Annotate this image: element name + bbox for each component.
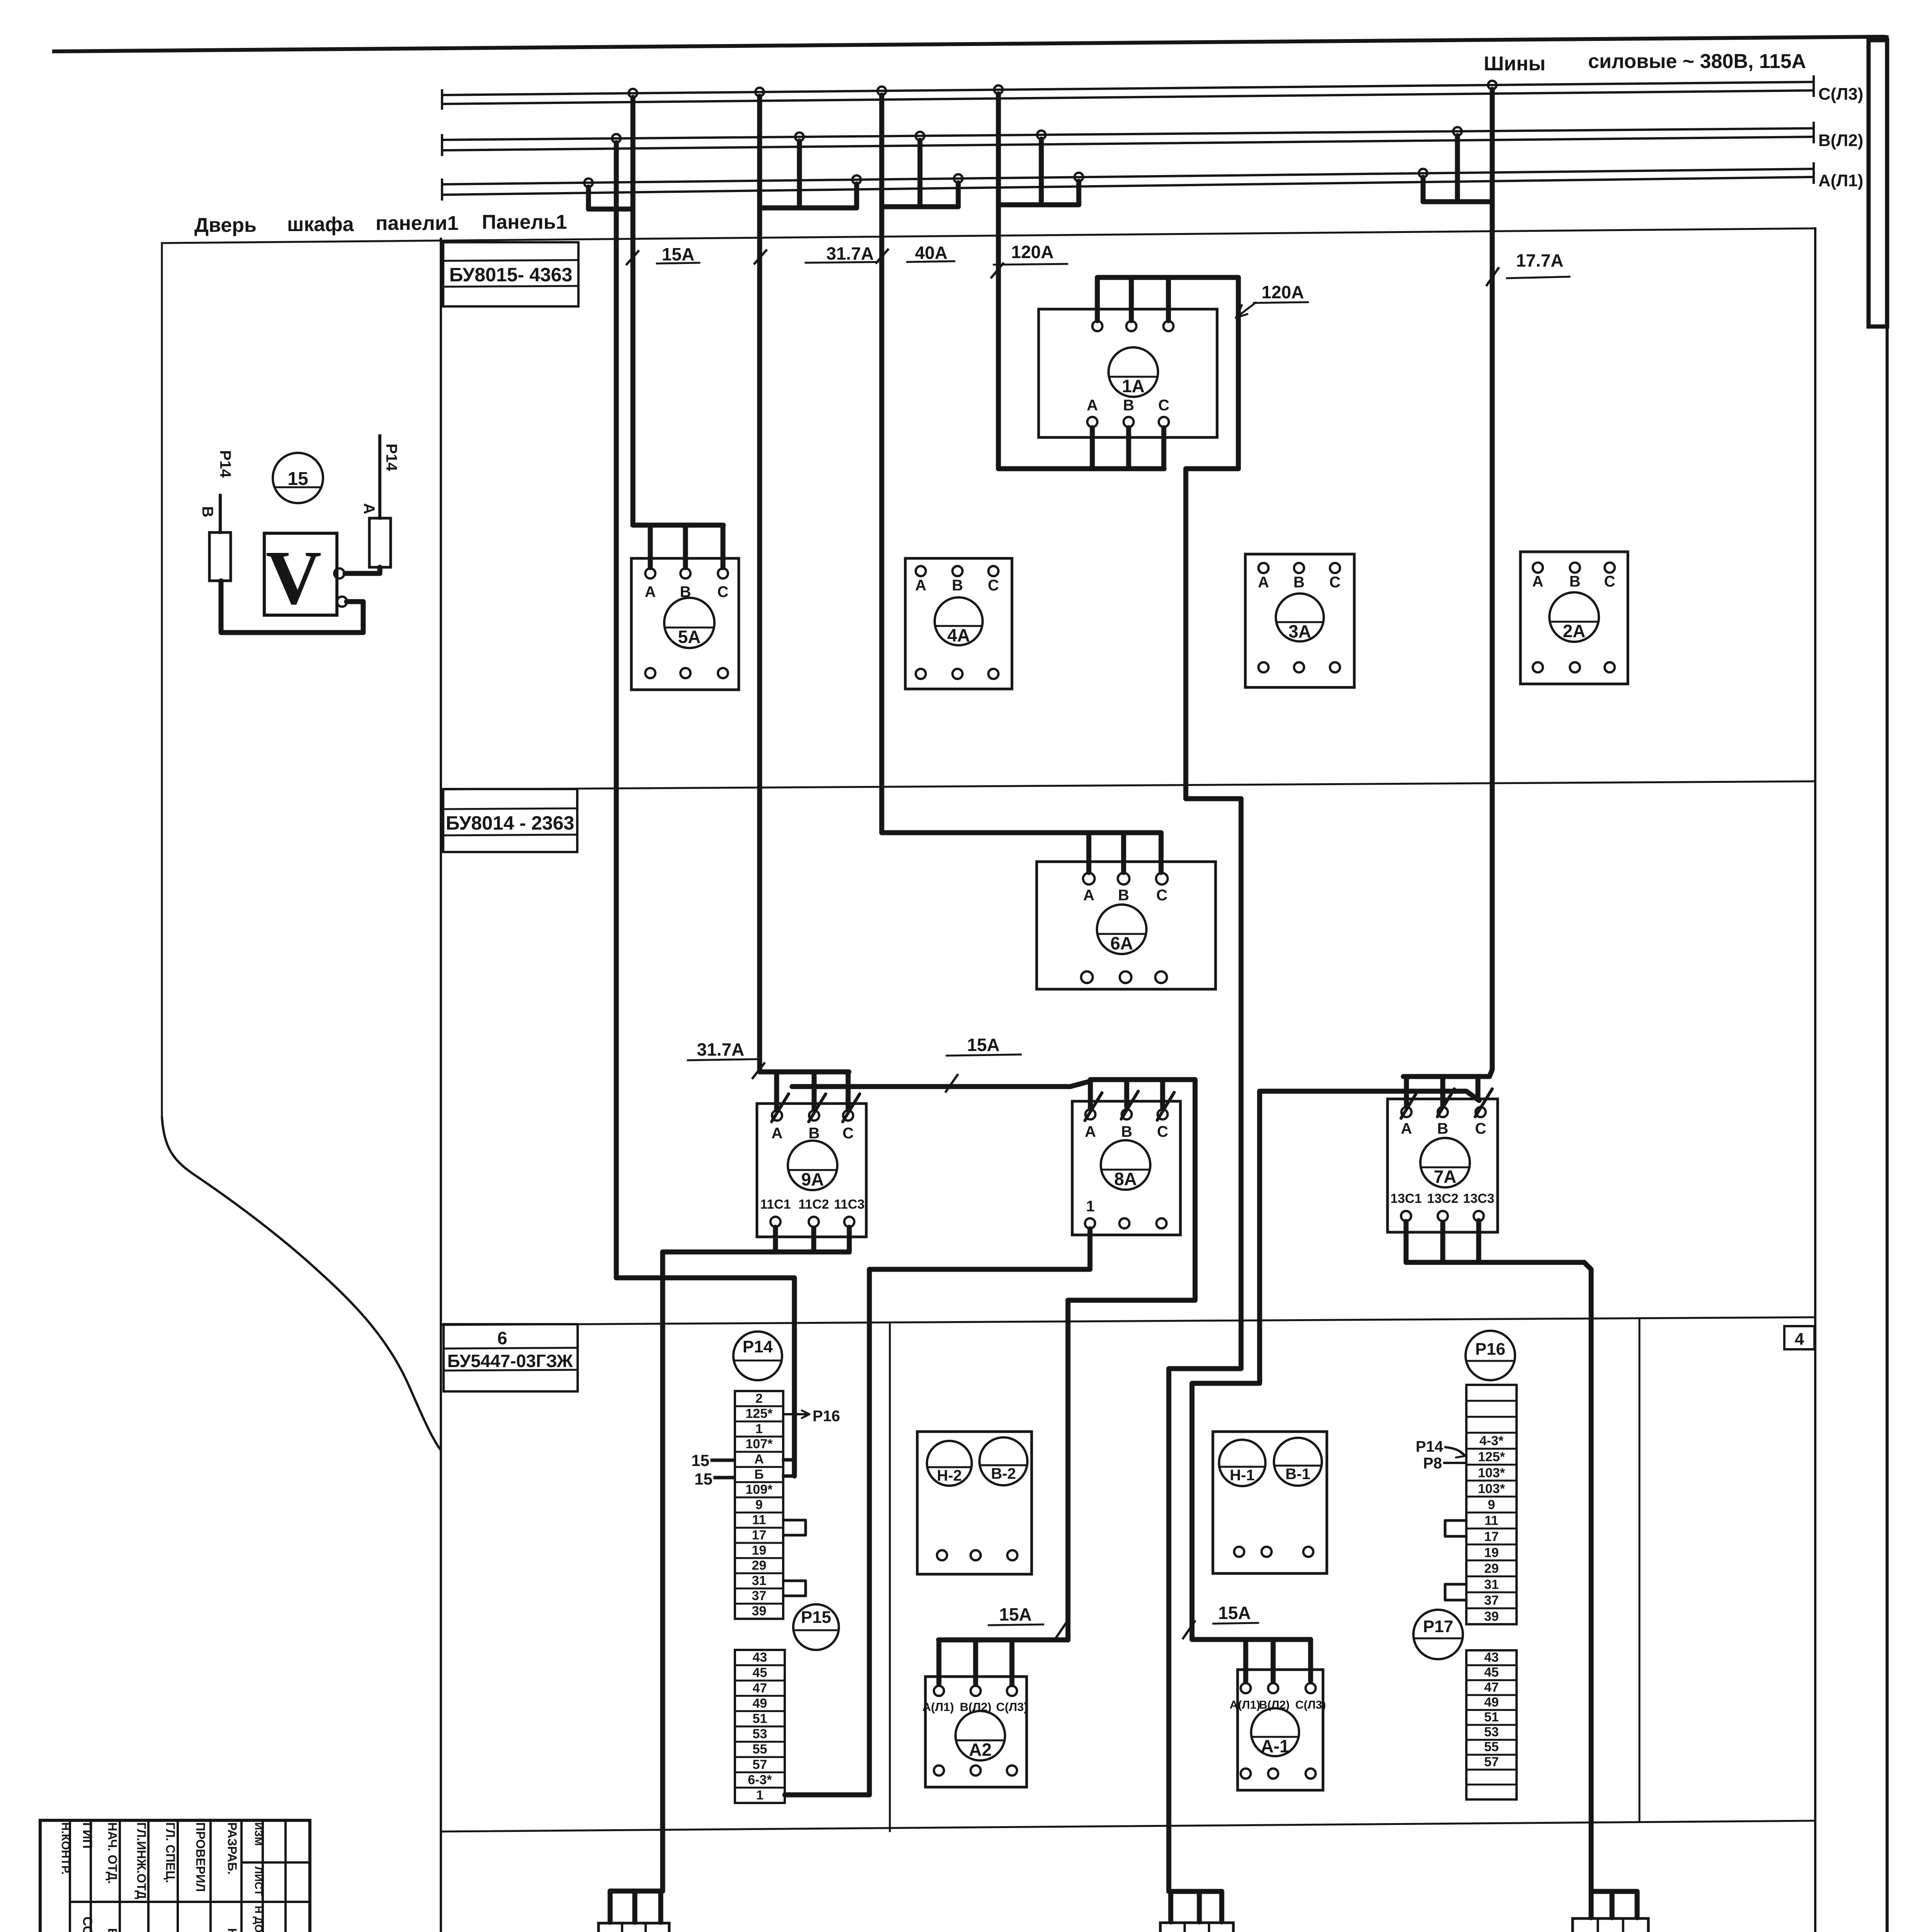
wire feeder 17.7A down to 7A breaker [1403,89,1492,1077]
wire 11S posts bracket [610,1889,663,1894]
circuit breaker 7A [1388,1099,1498,1232]
wire feeder 40A down to 6A breaker [882,95,1161,833]
svg-text:Панель1: Панель1 [482,211,567,233]
resistor fuse A [369,436,391,567]
svg-text:С: С [1158,397,1170,414]
svg-text:11: 11 [752,1513,766,1527]
bus A right end tick [1813,163,1815,183]
wire stub to terminal row A [784,1458,794,1462]
svg-text:НАЧ. ОТД.: НАЧ. ОТД. [105,1822,119,1884]
sheet right border [1886,37,1889,1932]
wire feeder 120A down to 1A breaker loop [998,94,1164,469]
pin labels A(L1) B(L2) C(L3) of A2 [922,1700,1028,1714]
svg-text:А: А [1087,397,1098,414]
svg-text:15А: 15А [1218,1603,1251,1623]
label 120A at 1A breaker [1236,282,1308,318]
svg-text:А: А [1083,887,1095,904]
svg-text:В-1: В-1 [1286,1466,1310,1483]
svg-text:Н ДОКУМ.: Н ДОКУМ. [253,1906,265,1932]
svg-text:ГЛ.ИНЖ.ОТД: ГЛ.ИНЖ.ОТД [134,1822,148,1899]
unit label table BU8015-4363 [443,242,578,306]
svg-text:А(Л1): А(Л1) [1818,171,1863,190]
svg-text:53: 53 [753,1727,767,1742]
svg-text:29: 29 [752,1558,767,1573]
svg-text:11С3: 11С3 [834,1197,864,1212]
door and panel top border [162,228,1815,243]
tap circle on bus B group5 [1453,127,1462,136]
svg-text:29: 29 [1484,1561,1499,1576]
bus C(L3) lower line [442,90,1814,104]
terminal strip right upper [1466,1385,1517,1624]
svg-text:V: V [266,535,321,621]
svg-text:15: 15 [691,1451,709,1469]
svg-text:В: В [1123,397,1134,414]
svg-text:109*: 109* [746,1482,773,1497]
bus B left end tick [441,135,443,155]
tap circle on bus B group3 [916,132,924,140]
title block signatures column texts [59,1822,265,1932]
svg-text:31: 31 [752,1573,767,1588]
wire 7A drop C with pole slash [1476,1077,1481,1100]
wire 6A drop C [1159,833,1164,872]
svg-text:С: С [1330,574,1341,591]
tap group feeder 15A: tap circle on bus C [629,89,637,97]
wire 1A top stub C [1166,277,1171,321]
svg-text:С: С [1475,1120,1486,1137]
svg-text:51: 51 [1484,1710,1499,1725]
svg-text:103*: 103* [1478,1481,1505,1496]
svg-text:3А: 3А [1289,621,1311,641]
section divider 3 [441,1821,1815,1832]
wire 15A branch from 9A to 8A [792,1081,1090,1087]
relay P16 [1466,1331,1515,1380]
svg-text:120А: 120А [1011,242,1054,262]
svg-text:2: 2 [755,1391,763,1406]
svg-text:В: В [809,1125,820,1142]
wire 9A drop A with pole slash [774,1072,779,1110]
svg-text:С: С [1604,573,1615,590]
wire gathering bracket group5 [1423,199,1492,204]
svg-text:4-3*: 4-3* [1479,1434,1504,1448]
svg-text:С(Л3): С(Л3) [1818,85,1863,104]
svg-text:45: 45 [1484,1665,1499,1680]
svg-text:С(Л3): С(Л3) [996,1700,1028,1714]
wire A-tap drop group2 [854,184,859,208]
wire long 15A line down to section2 jog [616,143,794,1476]
wire 1A bottom stub B [1126,428,1131,469]
svg-text:49: 49 [1484,1695,1499,1709]
svg-text:7А: 7А [1434,1167,1457,1187]
title block table [40,1820,310,1932]
svg-text:А: А [645,583,656,600]
svg-text:9: 9 [1488,1497,1495,1512]
wire 8A outgoing loop to A2 breaker [1068,1080,1195,1640]
svg-text:125*: 125* [746,1406,773,1421]
bus C(L3) upper line [442,82,1814,95]
svg-text:Н-2: Н-2 [937,1467,962,1484]
wire middle posts drops [1171,1889,1222,1894]
svg-text:1: 1 [1086,1198,1095,1215]
svg-text:Р8: Р8 [1423,1455,1442,1472]
lamp 15 indicator circle [273,453,323,503]
svg-text:107*: 107* [746,1437,773,1451]
circuit breaker A2 [925,1677,1027,1787]
svg-text:В(Л2): В(Л2) [1818,131,1863,150]
wire A-tap drop group4 [1076,181,1081,205]
block N-2 V-2 [917,1432,1032,1574]
svg-text:А: А [1085,1123,1096,1140]
section divider 1 [441,781,1815,789]
svg-text:СОГЛАЕВ: СОГЛАЕВ [80,1917,95,1932]
svg-text:В: В [1118,887,1129,904]
svg-text:57: 57 [1484,1755,1499,1769]
wire B-tap drop group5 [1455,136,1460,202]
svg-text:С: С [1157,1123,1168,1140]
tap circle on bus A group1 [584,179,593,187]
link label P14 with arrow to right strip [1416,1438,1465,1458]
svg-text:А(Л1): А(Л1) [922,1700,954,1714]
svg-text:37: 37 [1484,1593,1499,1608]
wire 6A drop A [1087,833,1092,872]
tap group feeder 40A: tap circle on bus C [877,87,886,95]
wire 1A bottom stub C [1161,428,1167,469]
wire A-tap drop group1 [586,187,591,209]
svg-text:31: 31 [1484,1577,1499,1592]
circuit breaker A-1 [1238,1670,1323,1790]
svg-text:РАЗРАБ.: РАЗРАБ. [225,1822,239,1874]
svg-text:47: 47 [1484,1680,1499,1695]
terminal strip right lower [1466,1650,1517,1799]
svg-text:В: В [1294,574,1305,591]
svg-text:Р16: Р16 [813,1408,840,1425]
wire 5A drop A [648,525,653,568]
svg-text:19: 19 [1484,1545,1499,1560]
tap circle on bus A group4 [1075,173,1083,181]
svg-text:13С1: 13С1 [1390,1191,1422,1206]
svg-text:4: 4 [1795,1330,1804,1349]
svg-text:103*: 103* [1478,1466,1505,1480]
relay P15 [793,1604,839,1650]
svg-text:43: 43 [753,1650,767,1665]
bus C right end tick [1813,77,1815,96]
terminal strip left lower [735,1650,785,1803]
svg-text:А(Л1): А(Л1) [1229,1699,1260,1711]
link label P16 with arrow [785,1408,840,1425]
bus B right end tick [1813,123,1815,142]
svg-text:2А: 2А [1563,621,1586,641]
label 31.7A feeder [755,243,878,264]
wire 7A drop B with pole slash [1440,1077,1445,1105]
wire 1A top feed bracket [1097,277,1238,469]
svg-text:51: 51 [753,1711,767,1726]
wire stub to terminal row B [784,1475,794,1478]
pin labels A(L1) B(L2) C(L3) of A-1 [1229,1699,1326,1711]
svg-text:В: В [199,506,216,517]
label box 4 [1784,1326,1814,1349]
svg-text:В: В [952,577,963,594]
svg-text:49: 49 [753,1696,767,1711]
svg-text:ГЛ. СПЕЦ.: ГЛ. СПЕЦ. [163,1822,177,1883]
svg-text:15А: 15А [999,1604,1032,1624]
svg-text:40А: 40А [915,243,947,263]
door break wavy line [162,1117,440,1450]
section divider 2 [441,1317,1815,1325]
section 3 internal divider left [889,1324,891,1831]
svg-text:С: С [988,577,999,594]
svg-text:В: В [1121,1123,1132,1140]
svg-text:31.7А: 31.7А [697,1039,745,1060]
wire A-tap drop group3 [956,183,961,207]
relay P17 [1413,1610,1463,1659]
svg-text:6-3*: 6-3* [748,1772,772,1787]
svg-text:9: 9 [755,1497,763,1512]
wire 1A output down to section 2 and 3 [1169,469,1241,1891]
svg-text:Р14: Р14 [1416,1438,1444,1455]
section 3 internal divider right [1639,1318,1641,1821]
svg-text:120А: 120А [1262,282,1304,302]
block N-1 V-1 [1213,1432,1327,1573]
bracket rows 11-17 right strip [1445,1520,1466,1536]
svg-text:13С3: 13С3 [1463,1191,1494,1206]
svg-text:1: 1 [756,1788,763,1803]
svg-text:15: 15 [287,469,308,489]
terminal posts middle group [1160,1923,1233,1932]
svg-text:19: 19 [752,1543,767,1558]
svg-text:13С2: 13С2 [1427,1191,1458,1206]
tap circle on bus A group2 [852,175,861,184]
wire A-1 drop B(L2) [1271,1639,1276,1682]
svg-text:В: В [1437,1120,1449,1137]
circuit breaker 8A [1072,1101,1180,1235]
svg-text:17: 17 [1484,1529,1499,1544]
svg-text:53: 53 [1484,1725,1499,1740]
svg-text:Р16: Р16 [1475,1340,1505,1359]
svg-text:Шины: Шины [1484,53,1546,75]
svg-text:шкафа: шкафа [287,213,354,236]
svg-text:А: А [754,1452,764,1467]
wire B-tap drop group3 [918,140,923,207]
svg-text:В(Л2): В(Л2) [1259,1699,1289,1711]
svg-text:17: 17 [752,1528,767,1543]
svg-text:5А: 5А [678,627,701,647]
svg-text:С(Л3): С(Л3) [1295,1699,1326,1711]
wire 8A terminal1 to strip row 1 [785,1229,1090,1795]
wire 1A bottom stub A [1090,428,1095,469]
link label 15 row A [691,1451,734,1469]
svg-text:панели1: панели1 [376,212,459,235]
wire 9A drop C with pole slash [846,1072,851,1110]
svg-text:БУ8015- 4363: БУ8015- 4363 [449,264,573,286]
svg-text:55: 55 [753,1742,767,1757]
svg-text:6А: 6А [1110,933,1133,953]
svg-text:Дверь: Дверь [194,214,257,236]
wire 7A drop A with pole slash [1404,1077,1409,1106]
wire 7A C-phase line to A-1 breaker [1192,1091,1479,1639]
svg-text:КНЯЗЕВА: КНЯЗЕВА [225,1928,239,1932]
label 40A feeder [876,243,954,263]
svg-text:1А: 1А [1122,376,1145,396]
svg-text:В: В [1570,573,1581,590]
svg-text:Р14: Р14 [743,1337,773,1356]
svg-text:37: 37 [752,1588,767,1603]
tap circle on bus B group4 [1037,131,1046,139]
svg-text:А: А [1401,1120,1412,1137]
svg-text:9А: 9А [801,1169,824,1189]
wire feeder 15A C-drop to 5A breaker [631,97,636,525]
svg-text:ГИП: ГИП [80,1822,95,1849]
svg-text:39: 39 [752,1604,767,1619]
bracket rows 31-37 right strip [1445,1584,1466,1600]
svg-text:ИЗМ: ИЗМ [253,1822,265,1846]
svg-text:4А: 4А [947,625,970,645]
tap circle on bus B for long 15A line [612,134,621,143]
svg-text:15: 15 [694,1470,712,1488]
sheet top border line [54,37,1884,51]
wire 13S posts bracket [1591,1889,1637,1894]
svg-text:А: А [360,503,377,514]
wire 9A drop B with pole slash [812,1072,817,1110]
circuit breaker 9A [757,1104,866,1237]
circuit breaker 4A [905,558,1012,689]
wire 1A top stub B [1129,277,1134,321]
svg-text:Н.КОНТР.: Н.КОНТР. [59,1822,72,1874]
wire B-tap drop group2 [797,141,802,208]
wire gathering bracket group1 [588,207,633,212]
bus A(L1) lower line [442,177,1814,195]
svg-text:ПРОВЕРИЛ: ПРОВЕРИЛ [194,1822,207,1892]
right busbar bar Ш [1869,40,1887,327]
terminal strip left upper [735,1391,783,1619]
wire 7A outputs gather to 13S posts [1404,1221,1409,1262]
label 120A feeder [991,242,1067,277]
terminal posts 13S1 13S2 13S3 [1573,1918,1648,1932]
bus A left end tick [441,180,443,199]
tap group feeder 17.7A: tap circle on bus C [1488,81,1496,89]
svg-text:Н-1: Н-1 [1230,1467,1255,1484]
svg-text:Р17: Р17 [1423,1617,1453,1636]
circuit breaker 5A [631,558,739,690]
tap circle on bus B group2 [795,133,804,141]
label 31.7A at 9A [688,1039,764,1078]
svg-text:Р14: Р14 [383,444,400,471]
svg-text:11: 11 [1484,1514,1498,1528]
svg-text:А: А [1258,574,1269,591]
unit label table BU8014-2363 [443,789,577,852]
svg-text:125*: 125* [1478,1450,1505,1464]
wire feeder 31.7A down to 9A breaker [760,96,849,1072]
label 15A at A-1 [1183,1603,1258,1638]
circuit breaker 3A [1245,554,1354,687]
svg-text:11С2: 11С2 [798,1197,829,1212]
svg-text:15А: 15А [967,1035,1000,1055]
svg-text:47: 47 [753,1681,767,1696]
svg-text:39: 39 [1484,1609,1499,1624]
wire 9A outputs gather [773,1227,778,1252]
wire gathering bracket group4 [998,202,1079,207]
panel right border [1814,228,1816,1932]
svg-text:1: 1 [755,1422,763,1436]
wire A resistor to voltmeter [345,567,380,573]
wire A-1 drop C(L3) [1308,1639,1313,1681]
bus B(L2) lower line [442,137,1814,150]
label 15A feeder [627,244,699,264]
bracket rows 31-37 left strip [783,1581,806,1596]
svg-text:31.7А: 31.7А [826,243,874,264]
svg-text:Б: Б [754,1467,763,1482]
svg-text:ЛИСТ: ЛИСТ [253,1866,265,1896]
wire 8A top bracket with pole slashes [1088,1081,1093,1108]
wire A2 feed bracket [939,1638,1068,1643]
svg-text:БУ8014 - 2363: БУ8014 - 2363 [446,812,575,834]
svg-text:55: 55 [1484,1740,1499,1754]
label 17.7A feeder [1487,250,1570,285]
wire voltmeter to B resistor [221,581,363,633]
svg-text:43: 43 [1484,1650,1499,1665]
bracket rows 11-17 left strip [783,1520,806,1535]
svg-text:силовые ~ 380В, 115А: силовые ~ 380В, 115А [1588,50,1806,73]
svg-text:Р14: Р14 [217,450,234,478]
svg-text:В(Л2): В(Л2) [960,1700,991,1714]
svg-text:15А: 15А [662,244,694,264]
wire 6A drop B [1121,833,1126,872]
unit label table BU5447-03G3Zh [444,1324,578,1391]
svg-text:А: А [915,577,927,594]
svg-text:А: А [772,1125,783,1142]
door left border [161,243,163,1117]
svg-text:17.7А: 17.7А [1516,250,1564,270]
wire A-1 drop A(L1) [1243,1639,1248,1682]
link label 15 row B [694,1470,734,1488]
svg-text:6: 6 [497,1328,507,1348]
tap group feeder 31.7A: tap circle on bus C [755,88,764,96]
svg-text:В-2: В-2 [991,1465,1016,1482]
tap group feeder 120A: tap circle on bus C [994,85,1003,94]
svg-text:Р15: Р15 [801,1608,831,1627]
svg-text:С: С [1156,887,1168,904]
svg-text:57: 57 [753,1757,767,1772]
wire A-tap drop group5 [1421,177,1426,202]
panel left border [440,239,442,1932]
wire 5A drop B [683,525,688,568]
wire gathering bracket group2 [760,206,857,211]
circuit breaker 2A [1520,552,1628,684]
tap circle on bus A group3 [954,174,962,183]
circuit breaker 6A [1037,862,1216,989]
svg-text:45: 45 [753,1665,767,1680]
label 15A at 8A branch [946,1035,1021,1092]
wire 5A feed bracket [633,523,723,528]
svg-text:С: С [718,583,729,600]
svg-text:ЕЛИСТРАТОВА: ЕЛИСТРАТОВА [105,1928,119,1932]
wire gathering bracket group3 [882,204,958,209]
svg-text:А2: А2 [969,1740,992,1760]
svg-text:А-1: А-1 [1261,1736,1289,1756]
tap circle on bus A group5 [1419,169,1427,177]
svg-text:11С1: 11С1 [760,1197,791,1212]
bus C left end tick [441,90,443,109]
svg-text:8А: 8А [1114,1169,1137,1189]
svg-text:С: С [843,1125,854,1142]
circuit breaker 1A [1039,309,1217,437]
label 15A at A2 [989,1604,1067,1638]
voltmeter V [264,533,347,621]
bus B(L2) upper line [442,128,1814,140]
resistor fuse B [209,495,231,581]
svg-text:А: А [1532,573,1544,590]
svg-text:БУ5447-03ГЗЖ: БУ5447-03ГЗЖ [447,1351,573,1371]
link label P8 to right strip [1423,1455,1466,1472]
wire 5A drop C [721,525,726,568]
